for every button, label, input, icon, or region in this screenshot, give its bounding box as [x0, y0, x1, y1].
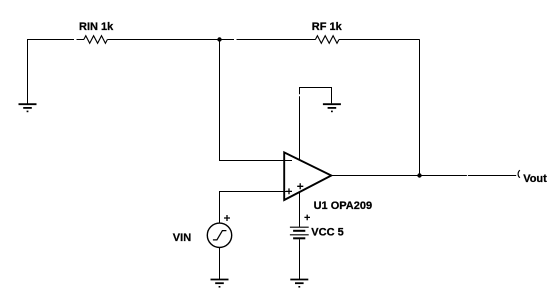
wire: positive supply pin down from op-amp to battery [299, 192, 301, 227]
wire: top rail segment node A to RF [237, 39, 316, 41]
wire: left vertical from top rail to ground [27, 40, 29, 104]
ground G1 (left) [19, 104, 37, 111]
node A junction dot [217, 37, 221, 41]
ground G4 (VIN) [211, 280, 229, 287]
svg-text:VIN: VIN [173, 232, 191, 244]
wire: feedback vertical node A down to inverting input [219, 40, 221, 161]
wire: VIN vertical up to non-inverting input [219, 192, 221, 224]
svg-text:Vout: Vout [523, 173, 547, 185]
node B output junction dot [417, 173, 421, 177]
svg-text:RF 1k: RF 1k [312, 21, 343, 33]
wire: VIN bottom to ground [219, 248, 221, 280]
source VIN circle [207, 223, 231, 247]
op-amp plus mark at positive supply pin [297, 183, 303, 189]
wire: battery bottom to ground [299, 239, 301, 279]
Vout terminal arc [518, 170, 520, 178]
wire: top rail left segment to RIN [27, 39, 84, 41]
wire: op-amp output to output node [331, 175, 467, 177]
wire: right vertical down to output node [419, 40, 421, 176]
svg-text:RIN 1k: RIN 1k [79, 21, 114, 33]
resistor RIN [84, 36, 108, 44]
op-amp plus mark at non-inverting input [286, 188, 292, 194]
battery plus mark [304, 215, 310, 221]
source VIN plus mark [224, 215, 230, 221]
resistor RF [315, 36, 339, 44]
battery VCC plates [290, 227, 309, 238]
wire: top rail middle segment RIN to node A [107, 39, 234, 41]
source VIN waveform symbol [213, 231, 227, 240]
svg-text:U1 OPA209: U1 OPA209 [314, 200, 373, 212]
wire: negative supply pin up from op-amp (with break) [299, 88, 301, 161]
ground G2 (op-amp supply) [323, 104, 341, 111]
op-amp U1 triangle [284, 152, 331, 200]
wire: top rail right segment RF to right corner [339, 39, 420, 41]
wire: ground stem down [331, 88, 333, 104]
svg-text:VCC 5: VCC 5 [311, 227, 343, 239]
wire: inverting input horizontal into op-amp [219, 160, 292, 162]
wire: non-inverting input horizontal into op-amp [219, 191, 292, 193]
wire: negative supply horizontal to ground stem [299, 87, 332, 89]
wire: output node to Vout terminal (with break) [468, 175, 516, 177]
ground G3 (battery) [290, 280, 308, 287]
